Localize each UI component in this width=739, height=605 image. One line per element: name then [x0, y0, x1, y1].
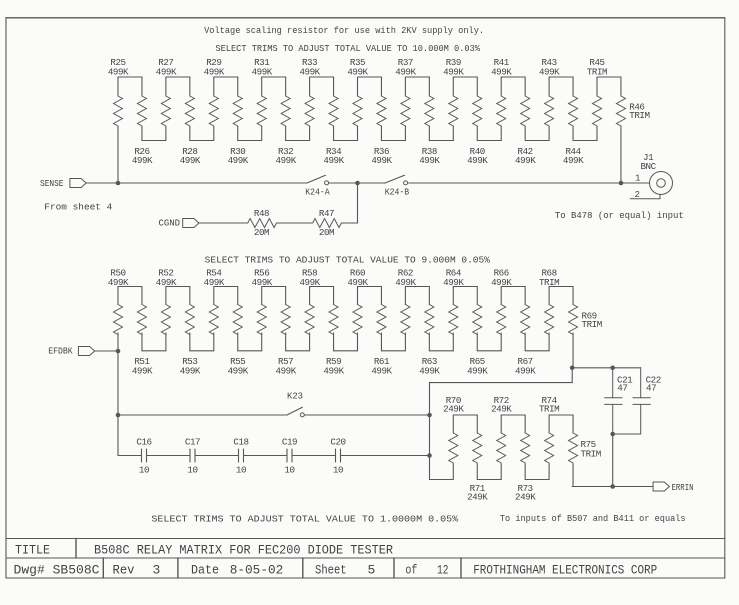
- svg-text:TRIM: TRIM: [587, 67, 607, 78]
- svg-text:SELECT TRIMS TO ADJUST TOTAL V: SELECT TRIMS TO ADJUST TOTAL VALUE TO 1.…: [151, 514, 458, 525]
- wire top bridge R35-R36: [358, 76, 382, 78]
- output flag ERRIN: [653, 482, 693, 493]
- resistor R37: [395, 57, 416, 141]
- svg-text:Dwg# SB508C: Dwg# SB508C: [14, 563, 100, 578]
- svg-text:SELECT TRIMS TO ADJUST TOTAL V: SELECT TRIMS TO ADJUST TOTAL VALUE TO 10…: [215, 43, 480, 54]
- svg-text:SENSE: SENSE: [40, 178, 64, 189]
- svg-text:499K: 499K: [108, 67, 129, 78]
- svg-text:3: 3: [153, 563, 161, 578]
- wire EFDBK to R50: [95, 350, 118, 352]
- resistor R65: [467, 287, 488, 377]
- svg-text:47: 47: [617, 383, 627, 394]
- svg-text:Rev: Rev: [113, 563, 135, 578]
- resistor R33: [299, 57, 320, 141]
- wire C21 junction down to ERRIN line: [612, 434, 614, 487]
- resistor R66: [491, 268, 512, 351]
- wire EFDBK down to K23 rail: [117, 351, 119, 415]
- wire top bridge R52-R53: [166, 286, 190, 288]
- wire capacitor rail: [118, 455, 430, 457]
- svg-text:499K: 499K: [228, 155, 249, 166]
- svg-text:499K: 499K: [276, 155, 297, 166]
- svg-text:10: 10: [139, 465, 149, 476]
- wire bottom bridge R67-R68: [525, 350, 549, 352]
- svg-text:10: 10: [333, 465, 343, 476]
- wire bottom bridge R30-R31: [238, 140, 262, 142]
- svg-text:2: 2: [634, 189, 639, 200]
- wire R48 to R47: [277, 222, 313, 224]
- wire bottom bridge R63-R64: [429, 350, 453, 352]
- wire top bridge R66-R67: [501, 286, 525, 288]
- wire bottom bridge R57-R58: [286, 350, 310, 352]
- svg-text:B508C RELAY MATRIX FOR FEC200: B508C RELAY MATRIX FOR FEC200 DIODE TEST…: [94, 543, 393, 558]
- wire top bridge R27-R28: [166, 76, 190, 78]
- svg-text:499K: 499K: [132, 155, 153, 166]
- title block text info row: [14, 563, 658, 578]
- wire bottom bridge R34-R35: [334, 140, 358, 142]
- svg-text:249K: 249K: [515, 492, 536, 503]
- svg-text:499K: 499K: [156, 67, 177, 78]
- svg-text:K24-B: K24-B: [385, 187, 410, 198]
- svg-text:499K: 499K: [299, 67, 320, 78]
- resistor R30: [228, 77, 249, 166]
- wire bottom bridge R38-R39: [429, 140, 453, 142]
- wire bottom bridge R53-R54: [190, 350, 214, 352]
- wire K23 rail right: [304, 414, 429, 416]
- wire bottom bridge R51-R52: [142, 350, 166, 352]
- wire bottom bridge R26-R27: [142, 140, 166, 142]
- resistor R34: [323, 77, 344, 166]
- svg-text:499K: 499K: [347, 67, 368, 78]
- svg-text:499K: 499K: [228, 366, 249, 377]
- resistor R29: [204, 57, 225, 141]
- resistor R72: [491, 395, 512, 480]
- node K23 rail right junction: [427, 413, 432, 418]
- wire SENSE rail segment 2: [329, 182, 385, 184]
- node ERRIN junction: [610, 484, 615, 489]
- input flag SENSE: [40, 178, 86, 189]
- resistor R59: [323, 287, 344, 377]
- wire bottom bridge R71-R72: [477, 479, 501, 481]
- resistor R38: [419, 77, 440, 166]
- wire SENSE rail segment 1: [86, 182, 307, 184]
- resistor R47 20M: [313, 208, 342, 238]
- resistor R41: [491, 57, 512, 141]
- svg-text:499K: 499K: [180, 366, 201, 377]
- resistor R45: [587, 57, 607, 141]
- svg-text:499K: 499K: [563, 155, 584, 166]
- wire R69 bottom to C21/C22: [572, 367, 641, 369]
- svg-text:5: 5: [368, 563, 376, 578]
- resistor R52: [156, 268, 177, 351]
- title block text TITLE row: [15, 543, 393, 558]
- svg-text:Voltage scaling resistor for u: Voltage scaling resistor for use with 2K…: [204, 25, 484, 36]
- svg-text:12: 12: [437, 563, 449, 578]
- capacitor C19 10: [282, 437, 297, 476]
- wire bottom bridge R40-R41: [477, 140, 501, 142]
- svg-text:BNC: BNC: [640, 161, 656, 172]
- wire top bridge R31-R32: [262, 76, 286, 78]
- svg-text:From sheet 4: From sheet 4: [44, 202, 112, 213]
- svg-text:499K: 499K: [371, 366, 392, 377]
- node R69 junction: [570, 366, 575, 371]
- node C21 C22 bottom junction: [610, 432, 615, 437]
- wire ERRIN line: [572, 486, 653, 488]
- resistor R32: [276, 77, 297, 166]
- input flag EFDBK: [48, 346, 94, 357]
- resistor R27: [156, 57, 177, 141]
- wire bottom bridge R55-R56: [238, 350, 262, 352]
- resistor R71: [467, 415, 488, 503]
- svg-text:499K: 499K: [539, 67, 560, 78]
- svg-text:CGND: CGND: [159, 218, 181, 229]
- svg-text:499K: 499K: [323, 155, 344, 166]
- resistor R62: [395, 268, 416, 351]
- node SENSE R25 junction: [116, 181, 121, 186]
- svg-text:Sheet: Sheet: [315, 563, 347, 578]
- wire CGND to R48: [199, 222, 248, 224]
- wire top bridge R37-R38: [405, 76, 429, 78]
- node K23 rail left junction: [116, 413, 121, 418]
- wire top bridge R70-R71: [453, 414, 477, 416]
- svg-text:ERRIN: ERRIN: [672, 482, 694, 493]
- svg-text:To B478 (or equal) input: To B478 (or equal) input: [555, 210, 684, 221]
- resistor R39: [443, 57, 464, 141]
- wire SENSE rail segment 3 to J1: [409, 182, 650, 184]
- svg-text:C17: C17: [185, 437, 200, 448]
- svg-text:10: 10: [284, 465, 294, 476]
- relay contact K23: [287, 391, 304, 417]
- wire top bridge R45-R46: [597, 76, 621, 78]
- svg-text:C18: C18: [233, 437, 248, 448]
- resistor R74: [539, 395, 559, 480]
- wire bottom bridge R73-R74: [525, 479, 549, 481]
- resistor R69: [569, 287, 602, 368]
- resistor R25: [108, 57, 129, 183]
- svg-text:499K: 499K: [515, 155, 536, 166]
- wire top bridge R25-R26: [118, 76, 142, 78]
- svg-text:8-05-02: 8-05-02: [230, 563, 284, 578]
- wire top bridge R64-R65: [453, 286, 477, 288]
- wire top bridge R43-R44: [549, 76, 573, 78]
- svg-text:499K: 499K: [491, 67, 512, 78]
- svg-text:499K: 499K: [395, 67, 416, 78]
- resistor R50: [108, 268, 129, 352]
- resistor R73: [515, 415, 536, 503]
- svg-text:249K: 249K: [443, 404, 464, 415]
- resistor R63: [419, 287, 440, 377]
- svg-text:499K: 499K: [180, 155, 201, 166]
- resistor R68: [539, 268, 559, 351]
- resistor R28: [180, 77, 201, 166]
- svg-text:10: 10: [187, 465, 197, 476]
- svg-text:499K: 499K: [515, 366, 536, 377]
- svg-text:499K: 499K: [276, 366, 297, 377]
- svg-text:R48: R48: [254, 208, 269, 219]
- resistor R57: [276, 287, 297, 377]
- wire top bridge R41-R42: [501, 76, 525, 78]
- wire bottom bridge R59-R60: [334, 350, 358, 352]
- svg-text:499K: 499K: [467, 366, 488, 377]
- wire bottom bridge R44-R45: [573, 140, 597, 142]
- resistor R35: [347, 57, 368, 141]
- resistor R44: [563, 77, 584, 166]
- wire top bridge R58-R59: [310, 286, 334, 288]
- svg-text:20M: 20M: [319, 227, 334, 238]
- node cap rail right junction: [427, 453, 432, 458]
- resistor R54: [204, 268, 225, 351]
- wire bottom bridge R42-R43: [525, 140, 549, 142]
- wire top bridge R74-R75: [549, 414, 573, 416]
- wire bottom bridge R32-R33: [286, 140, 310, 142]
- svg-text:499K: 499K: [467, 155, 488, 166]
- resistor R56: [252, 268, 273, 351]
- resistor R55: [228, 287, 249, 377]
- capacitor C20 10: [330, 437, 345, 476]
- wire top bridge R50-R51: [118, 286, 142, 288]
- capacitor C17 10: [185, 437, 200, 476]
- wire top bridge R54-R55: [214, 286, 238, 288]
- svg-text:499K: 499K: [323, 366, 344, 377]
- resistor R46: [616, 77, 649, 183]
- resistor R51: [132, 287, 153, 377]
- resistor R64: [443, 268, 464, 351]
- wire R69 down-left to R70 column: [430, 368, 573, 480]
- svg-text:FROTHINGHAM ELECTRONICS CORP: FROTHINGHAM ELECTRONICS CORP: [473, 563, 657, 578]
- resistor R40: [467, 77, 488, 166]
- relay contact K24-B: [385, 175, 410, 197]
- node C21 top junction: [610, 366, 615, 371]
- svg-text:C16: C16: [136, 437, 151, 448]
- wire down to cap rail: [117, 415, 119, 456]
- wire bottom bridge R36-R37: [381, 140, 405, 142]
- wire top bridge R29-R30: [214, 76, 238, 78]
- wire top bridge R39-R40: [453, 76, 477, 78]
- wire top bridge R33-R34: [310, 76, 334, 78]
- resistor R70: [443, 395, 464, 480]
- resistor R43: [539, 57, 560, 141]
- svg-text:47: 47: [646, 383, 656, 394]
- resistor R61: [371, 287, 392, 377]
- svg-text:K23: K23: [287, 391, 303, 402]
- svg-text:499K: 499K: [371, 155, 392, 166]
- wire K23 rail left: [118, 414, 287, 416]
- capacitor C22 47: [613, 368, 661, 434]
- resistor R42: [515, 77, 536, 166]
- svg-text:499K: 499K: [204, 67, 225, 78]
- node K24 CGND junction: [355, 181, 360, 186]
- svg-text:EFDBK: EFDBK: [48, 346, 73, 357]
- input flag CGND: [159, 218, 200, 229]
- node EFDBK R50 junction: [116, 349, 121, 354]
- svg-text:499K: 499K: [419, 366, 440, 377]
- resistor R53: [180, 287, 201, 377]
- svg-text:249K: 249K: [467, 492, 488, 503]
- wire bottom bridge R61-R62: [381, 350, 405, 352]
- wire top bridge R60-R61: [358, 286, 382, 288]
- wire R47 up to SENSE rail: [341, 183, 357, 223]
- wire top bridge R56-R57: [262, 286, 286, 288]
- svg-text:of: of: [405, 563, 417, 578]
- wire bottom bridge R28-R29: [190, 140, 214, 142]
- wire top bridge R72-R73: [501, 414, 525, 416]
- svg-text:Date: Date: [191, 563, 219, 578]
- svg-text:K24-A: K24-A: [305, 187, 330, 198]
- svg-text:499K: 499K: [252, 67, 273, 78]
- resistor R31: [252, 57, 273, 141]
- node R46 J1 junction: [619, 181, 624, 186]
- svg-text:C19: C19: [282, 437, 297, 448]
- resistor R75: [569, 415, 601, 487]
- svg-text:TRIM: TRIM: [581, 449, 601, 460]
- svg-text:R47: R47: [319, 208, 334, 219]
- svg-text:20M: 20M: [254, 227, 269, 238]
- resistor R26: [132, 77, 153, 166]
- capacitor C16 10: [136, 437, 151, 476]
- wire bottom bridge R65-R66: [477, 350, 501, 352]
- capacitor C21 47: [605, 368, 634, 434]
- capacitor C18 10: [233, 437, 248, 476]
- svg-text:TRIM: TRIM: [582, 319, 602, 330]
- connector J1 BNC: [630, 152, 672, 200]
- svg-text:TITLE: TITLE: [15, 543, 50, 558]
- svg-text:To inputs of B507 and B411 or: To inputs of B507 and B411 or equals: [500, 513, 686, 524]
- resistor R48 20M: [248, 208, 277, 238]
- wire top bridge R62-R63: [405, 286, 429, 288]
- wire top bridge R68-R69: [549, 286, 573, 288]
- svg-text:C20: C20: [330, 437, 345, 448]
- svg-text:249K: 249K: [491, 404, 512, 415]
- svg-text:499K: 499K: [419, 155, 440, 166]
- relay contact K24-A: [305, 175, 330, 197]
- svg-text:10: 10: [236, 465, 246, 476]
- svg-text:499K: 499K: [443, 67, 464, 78]
- svg-text:SELECT TRIMS TO ADJUST TOTAL V: SELECT TRIMS TO ADJUST TOTAL VALUE TO 9.…: [205, 255, 490, 266]
- resistor R60: [347, 268, 368, 351]
- svg-text:499K: 499K: [132, 366, 153, 377]
- resistor R36: [371, 77, 392, 166]
- resistor R58: [299, 268, 320, 351]
- svg-text:TRIM: TRIM: [539, 404, 559, 415]
- svg-text:TRIM: TRIM: [629, 110, 649, 121]
- resistor R67: [515, 287, 536, 377]
